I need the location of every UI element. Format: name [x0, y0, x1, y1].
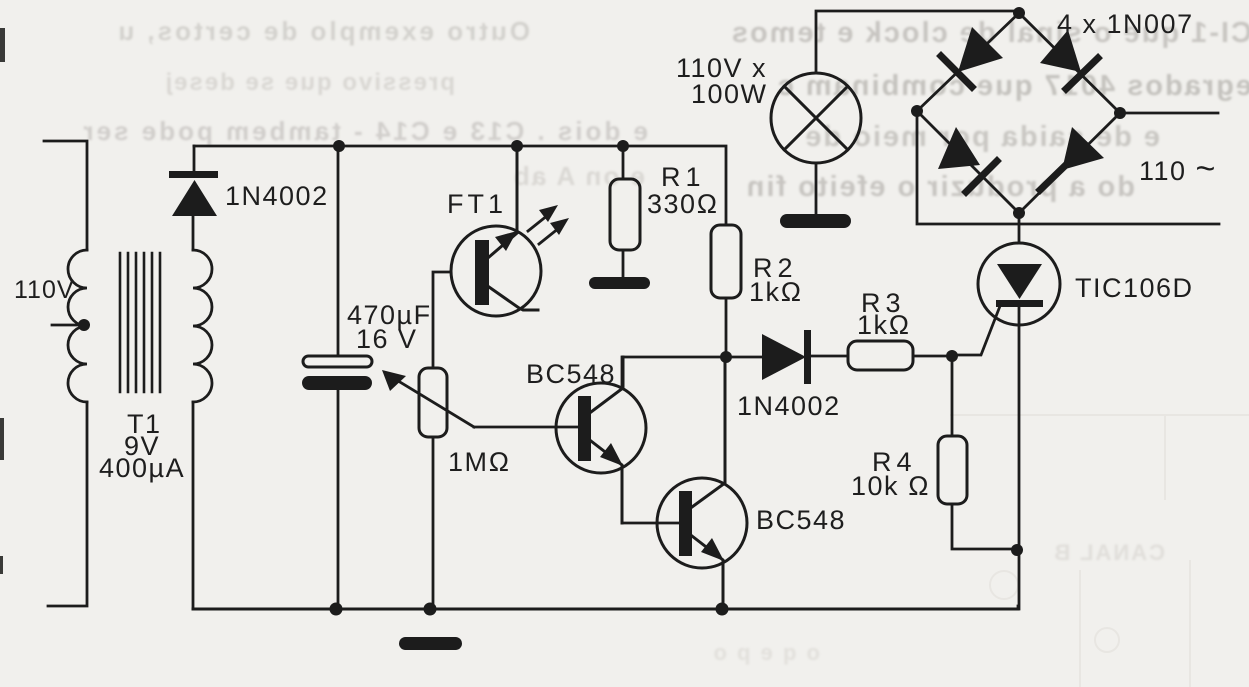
resistor R4 body — [938, 436, 967, 504]
wire: 110V input top lead — [44, 141, 87, 250]
wire: lamp bottom lead — [815, 163, 818, 216]
lamp X stroke 1 — [784, 86, 848, 150]
ground at bottom rail — [399, 637, 462, 650]
node: P1 bottom junction — [424, 603, 437, 616]
SCR gate lead — [952, 306, 1000, 355]
wire: FT1 collector lead — [489, 146, 517, 257]
svg-text:16 V: 16 V — [356, 324, 418, 354]
Q2 emitter lead — [692, 536, 723, 609]
wire: capacitor branch upper — [337, 146, 340, 356]
bridge diode BR4 bottom-right — [1040, 127, 1104, 190]
scanner edge marks — [0, 28, 5, 574]
svg-text:BC548: BC548 — [526, 359, 616, 389]
wire: lamp top lead — [816, 11, 1017, 73]
svg-text:1kΩ: 1kΩ — [749, 277, 803, 307]
wire: P1 bottom lead — [432, 437, 435, 609]
node: bridge top corner — [1013, 7, 1025, 19]
diode D1 cathode bar — [169, 171, 218, 178]
wire: R4 bottom lead — [952, 504, 1018, 549]
resistor R2 body — [711, 225, 741, 298]
transformer T1 secondary winding — [193, 250, 212, 402]
phototransistor FT1 body — [451, 226, 541, 316]
node: primary tap junction — [78, 319, 90, 331]
wire: primary bottom lead — [48, 402, 87, 606]
node: R1 top junction — [617, 140, 629, 152]
P1 wiper arrowhead — [382, 370, 406, 391]
svg-text:BC548: BC548 — [756, 505, 846, 535]
node: bridge right corner — [1114, 107, 1126, 119]
node: R2/D2/collector junction — [720, 351, 732, 363]
wire: capacitor branch lower — [337, 390, 340, 609]
wire: D2 to R3 — [811, 355, 848, 358]
SCR cathode bar — [996, 300, 1043, 307]
wire: secondary top lead to diode — [192, 216, 195, 250]
wire: bridge bottom to SCR anode — [1018, 213, 1021, 243]
diode D2 cathode bar — [804, 330, 811, 384]
FT1 emitter lead — [489, 287, 538, 310]
svg-text:pressivo que se desej: pressivo que se desej — [164, 69, 455, 96]
wire: secondary bottom lead — [192, 402, 195, 609]
P1 wiper arrow shaft — [395, 379, 474, 427]
node: gate/R4 junction — [946, 350, 958, 362]
diode D2 1N4002 triangle — [762, 334, 806, 380]
svg-text:330Ω: 330Ω — [647, 189, 719, 219]
FT1 light arrow 2 — [539, 218, 569, 244]
node: bridge left corner — [911, 105, 923, 117]
wire: R2 bottom lead — [725, 298, 728, 357]
FT1 collector arrowhead — [495, 231, 517, 251]
bridge rectifier outline — [917, 13, 1120, 213]
capacitor C1 top plate — [303, 356, 372, 367]
wire: R1 top lead — [622, 146, 625, 179]
svg-text:100W: 100W — [691, 79, 768, 109]
node: Q2 emitter bottom junction — [716, 603, 729, 616]
Q1 collector lead — [591, 357, 623, 412]
lamp L1 body — [771, 73, 861, 163]
svg-text:1N4002: 1N4002 — [225, 181, 329, 211]
resistor R3 body — [848, 341, 913, 370]
wire: FT1 base lead — [433, 272, 451, 368]
bridge diode BR1 top-left — [941, 27, 1003, 87]
svg-text:400µA: 400µA — [99, 453, 185, 483]
svg-text:1MΩ: 1MΩ — [448, 447, 511, 477]
potentiometer P1 1M body — [419, 368, 447, 437]
wire: diode top to rail — [193, 146, 196, 171]
svg-text:o q e p o: o q e p o — [712, 640, 820, 665]
svg-text:FT1: FT1 — [447, 189, 507, 219]
svg-text:Outro exemplo de certos,: Outro exemplo de certos, u — [115, 16, 530, 46]
svg-text:e dois . C13 e C14 - tambem: e dois . C13 e C14 - tambem pode ser — [81, 116, 649, 146]
svg-text:1kΩ: 1kΩ — [857, 310, 911, 340]
svg-text:R1: R1 — [661, 162, 706, 192]
wire: top rail — [194, 146, 726, 225]
wire: AC line right upper — [1120, 112, 1218, 115]
wire: bottom rail — [193, 608, 1018, 611]
node: FT1 collector junction — [511, 140, 523, 152]
svg-text:10k Ω: 10k Ω — [851, 471, 930, 501]
Q2 collector lead — [692, 357, 725, 507]
transformer T1 core — [120, 253, 160, 392]
bridge diode BR3 bottom-left — [938, 127, 997, 192]
node: bridge bottom corner — [1013, 207, 1025, 219]
svg-text:110 ~: 110 ~ — [1139, 150, 1217, 188]
wire: 110V input tap lead — [52, 324, 83, 327]
svg-text:e on A ab: e on A ab — [512, 161, 645, 191]
wire: SCR cathode down to rail — [1018, 307, 1019, 609]
svg-text:do a produzir o efeito fin: do a produzir o efeito fin — [745, 171, 1135, 203]
Q1 emitter arrowhead — [600, 443, 623, 466]
Q2 base bar — [679, 491, 692, 556]
transformer T1 primary winding — [68, 250, 87, 402]
lamp X stroke 2 — [784, 86, 848, 150]
wire: node to diode D2 — [726, 356, 762, 359]
wire: R4 top lead — [951, 356, 954, 436]
node: capacitor bottom junction — [330, 603, 343, 616]
wire: R1 bottom lead — [622, 250, 625, 278]
SCR triangle — [997, 264, 1042, 299]
transistor Q1 BC548 body — [556, 383, 646, 473]
node: R4/cathode junction — [1011, 544, 1023, 556]
Q1 base bar — [578, 396, 591, 461]
resistor R1 body — [610, 179, 640, 250]
wire: Q1 emitter to Q2 base — [622, 522, 679, 525]
svg-text:CANAL B: CANAL B — [1052, 540, 1165, 565]
wire: AC line left-bottom — [917, 111, 1219, 224]
svg-text:TIC106D: TIC106D — [1075, 273, 1194, 303]
Q2 emitter arrowhead — [701, 538, 724, 561]
transistor Q2 BC548 body — [657, 478, 747, 568]
svg-text:110V: 110V — [14, 276, 75, 304]
ground under lamp — [780, 214, 851, 228]
svg-text:1N4002: 1N4002 — [737, 391, 841, 421]
faint bleed-through diagram lines bottom right — [950, 415, 1249, 687]
wire: R3 to gate node — [913, 355, 952, 358]
bridge diode BR2 top-right — [1040, 30, 1098, 89]
FT1 base bar — [475, 240, 489, 305]
ground under R1 — [589, 277, 650, 289]
wire: node to BC548-1 collector — [622, 357, 726, 385]
node: capacitor top junction — [333, 140, 345, 152]
diode D1 1N4002 triangle — [172, 180, 217, 216]
wire: wiper to Q1 base — [474, 426, 578, 429]
svg-text:4 x 1N007: 4 x 1N007 — [1057, 9, 1194, 39]
SCR U1 TIC106D body — [978, 243, 1060, 325]
Q1 emitter lead — [591, 441, 622, 523]
FT1 light arrow 1 — [528, 205, 558, 231]
capacitor C1 bottom plate — [302, 376, 372, 390]
